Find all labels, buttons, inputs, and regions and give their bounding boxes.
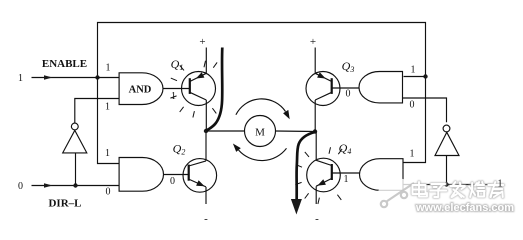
wire inverter X1 output to AND gate U1 bottom input (75, 99, 120, 124)
wire AND U1 output to Q1 base (163, 88, 190, 90)
svg-text:+: + (199, 36, 205, 48)
wire ENABLE input to AND gate U1 top input (32, 77, 120, 79)
wire AND U4 output to Q4 base (332, 172, 360, 174)
svg-text:1: 1 (498, 179, 503, 190)
AND gate U1 (upper left) (119, 73, 163, 105)
svg-text:0: 0 (18, 181, 23, 192)
transistor Q1 (PNP upper left) (182, 48, 216, 132)
AND gate U3 (upper right, mirrored) (359, 72, 403, 103)
wire AND gate U3 top input (404, 76, 426, 78)
watermark logo (grey chain link) (377, 178, 417, 218)
svg-text:-: - (204, 213, 208, 223)
wire inverter X2 input down to junction (446, 156, 448, 185)
node DIR-L junction (73, 183, 77, 187)
thick current path from motor through Q4 with arrowhead (297, 132, 315, 202)
wire right rail down to AND gate U4 top input (404, 77, 426, 163)
wire left motor terminal to motor (206, 130, 245, 132)
transistor Q3 (PNP upper right) (306, 48, 340, 132)
wire AND U3 bottom input to inverter X2 output (403, 98, 447, 122)
svg-text:www.elecfans.com: www.elecfans.com (415, 202, 514, 214)
wire DIR-L up to inverter X1 input (75, 153, 77, 186)
wire AND U4 bottom input and DIR-R stub (404, 184, 492, 186)
svg-text:1: 1 (344, 174, 349, 185)
node ENABLE junction (95, 75, 99, 79)
rotation arrow bottom arc (239, 148, 287, 160)
wire AND U2 output to Q2 base (164, 174, 190, 176)
svg-text:Q3: Q3 (342, 59, 355, 74)
svg-text:0: 0 (410, 100, 415, 111)
svg-text:1: 1 (18, 73, 23, 84)
inverter X2 (right, pointing up) (435, 132, 459, 155)
node right rail junction (423, 74, 427, 78)
watermark text 电子发烧友 (413, 182, 515, 214)
rotation arrow top arc (236, 99, 286, 115)
svg-text:M: M (255, 127, 265, 139)
inverter X1 (left, pointing up) (63, 130, 87, 153)
node right DIR junction (444, 182, 448, 186)
arrowhead ENABLE input (44, 75, 53, 79)
radiating dashes around Q1 (conducting) (170, 61, 217, 118)
wire AND U3 output to Q3 base (332, 87, 360, 89)
svg-text:1: 1 (105, 148, 110, 159)
svg-text:0: 0 (346, 89, 351, 100)
svg-text:Q1: Q1 (171, 57, 184, 72)
svg-text:+: + (310, 36, 316, 48)
svg-text:AND: AND (129, 85, 152, 96)
AND gate U2 (lower left) (119, 158, 163, 192)
svg-text:0: 0 (170, 176, 175, 187)
wire DIR-L input line (32, 185, 120, 187)
thick current path through Q1 to motor (206, 48, 222, 131)
transistor Q2 (NPN lower left) (183, 131, 217, 204)
svg-text:0: 0 (106, 187, 111, 198)
svg-text:DIR–L: DIR–L (48, 198, 81, 210)
svg-text:1: 1 (410, 149, 415, 160)
wire top supply bus from ENABLE node to right rail (98, 23, 426, 78)
arrowhead DIR-L input (44, 183, 53, 187)
radiating dashes around Q4 (conducting) (295, 147, 342, 204)
node right motor terminal (313, 129, 317, 133)
motor M (245, 116, 276, 147)
svg-text:1: 1 (106, 63, 111, 74)
svg-text:-: - (315, 213, 319, 223)
svg-text:Q4: Q4 (339, 141, 352, 156)
svg-text:1: 1 (411, 65, 416, 76)
node left motor terminal (204, 129, 208, 133)
svg-text:1: 1 (105, 102, 110, 113)
AND gate U4 (lower right, mirrored) (360, 159, 404, 191)
svg-text:Q2: Q2 (173, 142, 186, 157)
svg-text:ENABLE: ENABLE (42, 58, 87, 70)
svg-text:1: 1 (171, 91, 176, 102)
wire ENABLE branch down to AND gate U2 top input (98, 78, 120, 164)
wire motor to right motor terminal (276, 130, 316, 133)
transistor Q4 (NPN lower right) (307, 132, 341, 205)
